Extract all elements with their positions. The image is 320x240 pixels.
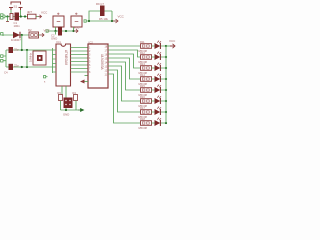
svg-text:R13: R13	[140, 62, 145, 66]
wire	[5, 16, 28, 18]
svg-text:VCC: VCC	[44, 29, 51, 33]
junction	[165, 100, 167, 102]
wire	[152, 67, 167, 69]
power flag VCC	[170, 44, 175, 48]
svg-text:VCC: VCC	[118, 15, 125, 19]
connector X1	[1, 14, 5, 19]
wire	[152, 78, 167, 80]
connector pin	[46, 30, 50, 32]
svg-text:100n: 100n	[14, 24, 21, 28]
net arrow	[78, 109, 84, 112]
connector ISP header	[64, 98, 73, 109]
junction	[165, 67, 167, 69]
LED D15	[155, 87, 161, 93]
resistor R16	[141, 99, 152, 104]
switch S2	[53, 16, 64, 27]
resistor R17	[141, 110, 152, 115]
wire	[89, 11, 116, 21]
connector pin	[1, 33, 5, 36]
junction	[72, 30, 74, 32]
svg-text:R5 10k: R5 10k	[99, 17, 108, 21]
connector pin	[84, 20, 89, 22]
junction	[111, 20, 113, 22]
svg-text:ATMEGA8: ATMEGA8	[64, 50, 68, 65]
svg-text:R3: R3	[58, 91, 62, 95]
junction	[165, 56, 167, 58]
capacitor C2	[58, 27, 62, 36]
wire	[166, 45, 170, 47]
pushbutton S1	[9, 2, 23, 10]
svg-text:1N4007: 1N4007	[11, 38, 21, 42]
LED D18	[155, 120, 161, 126]
junction	[21, 34, 23, 36]
wire	[50, 30, 75, 32]
svg-text:R9 C7: R9 C7	[96, 2, 104, 6]
resistor R12	[141, 55, 152, 60]
svg-text:M5C08: M5C08	[139, 126, 148, 129]
resistor R14	[141, 77, 152, 82]
LED D12	[155, 54, 161, 60]
resistor R13	[141, 66, 152, 71]
wire	[6, 50, 53, 67]
wire (IC1 to IC2)	[71, 48, 89, 76]
wire	[152, 89, 167, 91]
switch S3	[71, 16, 82, 27]
net arrow RST	[80, 80, 85, 84]
svg-text:22p: 22p	[14, 48, 19, 52]
svg-text:R12: R12	[140, 51, 145, 55]
junction	[21, 49, 23, 51]
svg-text:4R7: 4R7	[27, 10, 33, 14]
resistor R4	[74, 95, 78, 101]
resistor R1	[28, 14, 37, 19]
junction	[24, 15, 26, 17]
wire	[152, 122, 167, 124]
resistor R2	[29, 32, 39, 38]
power flag VCC	[113, 19, 118, 23]
resistor R15	[141, 88, 152, 93]
wire	[61, 101, 79, 111]
LED D13	[155, 65, 161, 71]
svg-text:R2: R2	[28, 28, 32, 32]
capacitor C4	[9, 64, 14, 70]
LED D16	[155, 98, 161, 104]
connector X2	[1, 55, 6, 62]
junction	[6, 15, 8, 17]
svg-text:R16: R16	[140, 95, 145, 99]
wire	[39, 34, 41, 36]
svg-text:S1: S1	[14, 5, 18, 9]
connector pin	[44, 76, 48, 78]
svg-text:R17: R17	[140, 106, 145, 110]
capacitor C5	[100, 6, 105, 17]
resistor R3	[59, 95, 63, 101]
resistor R18	[141, 121, 152, 126]
svg-text:R14: R14	[140, 73, 145, 77]
capacitor C3	[9, 47, 14, 53]
junction	[26, 66, 28, 68]
svg-text:C4: C4	[4, 71, 8, 75]
junction	[165, 78, 167, 80]
junction	[21, 66, 23, 68]
wire	[7, 17, 9, 22]
junction	[165, 89, 167, 91]
LED D11	[155, 43, 161, 49]
svg-text:VCC: VCC	[41, 11, 48, 15]
diode D1	[10, 14, 13, 20]
power flag VCC	[40, 33, 44, 36]
wire	[11, 10, 21, 17]
junction	[165, 45, 167, 47]
wire	[55, 31, 57, 35]
wire	[152, 111, 167, 113]
crystal Q1	[26, 50, 28, 67]
junction	[165, 122, 167, 124]
LED D17	[155, 109, 161, 115]
resistor R11	[141, 44, 152, 49]
LED D14	[155, 76, 161, 82]
wire	[56, 27, 74, 31]
wire (IC1 left pin bus)	[53, 48, 57, 73]
junction	[88, 20, 90, 22]
svg-text:16MHz: 16MHz	[29, 53, 33, 62]
junction	[165, 111, 167, 113]
svg-text:R11: R11	[140, 40, 145, 44]
power flag VCC	[74, 29, 78, 32]
svg-text:ULN2803A: ULN2803A	[100, 54, 104, 70]
pin numbers U2 right	[105, 45, 108, 76]
junction	[65, 30, 67, 32]
wire (IC1 bottom pins)	[62, 86, 66, 98]
wire	[5, 34, 29, 36]
wire fan to LED rows	[108, 46, 141, 123]
junction	[26, 49, 28, 51]
svg-text:R18: R18	[140, 117, 145, 121]
pin numbers U2 left	[89, 46, 91, 74]
wire (VCC rail)	[165, 46, 167, 123]
junction	[54, 30, 56, 32]
svg-text:VCC: VCC	[74, 26, 80, 30]
svg-text:R4: R4	[73, 91, 77, 95]
wire	[152, 100, 167, 102]
diode D2	[13, 32, 20, 38]
svg-text:VCC: VCC	[169, 39, 176, 43]
svg-text:GND: GND	[63, 113, 69, 117]
svg-text:R15: R15	[140, 84, 145, 88]
wire	[36, 16, 38, 18]
wire	[152, 56, 167, 58]
wire	[21, 35, 23, 50]
capacitor C1	[15, 13, 20, 21]
IC U1 (ATmega8)	[56, 44, 71, 86]
svg-text:IC1: IC1	[57, 40, 62, 44]
junction	[20, 15, 22, 17]
power flag VCC	[38, 15, 42, 18]
ground	[6, 21, 9, 23]
svg-text:22p: 22p	[14, 64, 19, 68]
junction	[65, 109, 67, 111]
wire	[152, 45, 167, 47]
IC U2 (ULN2803)	[88, 44, 108, 88]
